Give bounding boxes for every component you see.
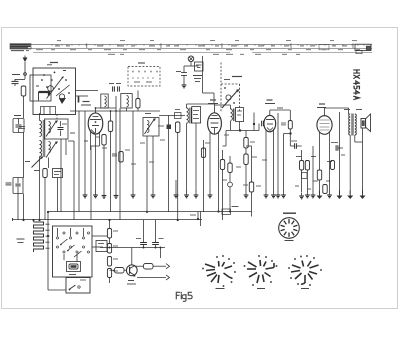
box R15 (302, 173, 308, 179)
speaker wire (362, 128, 364, 142)
valve connection diagram 1 (205, 264, 215, 268)
switch box wires right (92, 235, 108, 237)
padder box (41, 107, 56, 115)
wire x91 (90, 146, 92, 220)
speaker (361, 119, 366, 129)
antenna coupling circle (24, 73, 27, 76)
electrolytic C30 (136, 238, 141, 240)
B3 pin wires (209, 133, 211, 193)
junction dots (239, 129, 241, 131)
label B3 EF41 (210, 99, 216, 101)
resistor R21 (107, 244, 111, 254)
B1 pin wires (90, 131, 92, 150)
coil box L2 (101, 94, 108, 108)
volume pot R12 (249, 182, 253, 192)
coupling cap B4 (261, 121, 263, 127)
trimmer T6 (32, 158, 42, 168)
output lines with arrows (153, 265, 166, 267)
resistor R23 (107, 269, 111, 278)
wire x278 (277, 113, 279, 192)
valve connection diagram 2 (248, 262, 257, 267)
wires IFT1 down (39, 117, 41, 121)
IFT1 primary winding (40, 121, 42, 137)
label B1-B5 (283, 212, 296, 214)
OT wires (349, 135, 351, 194)
IFT2 box (143, 118, 159, 137)
resistor R6 (119, 152, 123, 163)
wire RF box to B1 (76, 90, 99, 92)
B3 anode wire (218, 150, 220, 212)
valve connection diagram 3 (292, 265, 301, 268)
gang dashed link (56, 115, 58, 121)
wire B4 grid (254, 130, 259, 132)
cathode resistor R16 (317, 170, 321, 180)
resistor chain R20 (107, 229, 111, 239)
battery box (195, 62, 204, 71)
resistor R22 (107, 257, 111, 267)
capacitor C1 (12, 74, 20, 76)
AVC bus wire (13, 219, 203, 221)
oscillator unit dashed box (128, 67, 160, 87)
switch arms (60, 239, 68, 245)
output stage labels (296, 156, 301, 158)
osc coil box L3 (121, 94, 132, 109)
label T-B (344, 109, 350, 111)
resistor R9 (244, 138, 248, 149)
resistor R4 (102, 135, 106, 146)
resistor R18 (331, 161, 335, 170)
extra specks zone IF (125, 149, 130, 151)
figure caption (176, 292, 192, 301)
ground row (175, 192, 177, 196)
wire x85 (84, 111, 86, 192)
wire x339 (339, 112, 341, 160)
IFT1 core (42, 120, 44, 157)
B4 top wire (270, 109, 290, 111)
resistor R10 (244, 154, 248, 165)
output transformer core (351, 114, 353, 136)
tube B5 (317, 116, 332, 135)
resistor R8 (176, 122, 180, 133)
IFT3 winding (187, 108, 189, 123)
resistor R13 (288, 121, 292, 130)
resistor R14 pair (300, 161, 304, 171)
wire x74 (73, 141, 75, 220)
B5 top wire to OT (325, 107, 349, 109)
grid wire (312, 146, 314, 192)
ground lamp (183, 82, 185, 86)
coil L1 thick lead (39, 92, 50, 96)
output resistor R25 (144, 264, 154, 270)
label B1 ECH42 (83, 101, 90, 103)
detector cap circle (228, 182, 233, 187)
tube B1 (88, 113, 103, 134)
collector wire (131, 248, 133, 265)
resistor R11 (228, 163, 232, 173)
dial bar tiny legends (55, 45, 60, 47)
electrolytic C31 (159, 238, 164, 240)
IFT1 capacitor (58, 127, 64, 129)
output transformer primary (349, 114, 351, 135)
tube B4 (264, 115, 276, 131)
wire x79 (78, 111, 80, 212)
bus component (222, 209, 231, 215)
socket B1-B5 pinout (279, 218, 300, 239)
emitter line y247 (100, 247, 165, 249)
wire x226 (225, 131, 227, 147)
tube B3 (208, 113, 222, 134)
switch contacts (56, 237, 58, 239)
ground B1 cathode (95, 192, 97, 196)
IFT2 pin wires (146, 136, 148, 212)
electrolytic C3 box (13, 178, 23, 194)
output transformer secondary (355, 114, 357, 135)
label B5 (319, 103, 325, 105)
push-button unit box (53, 226, 93, 277)
wires down x116-138 (115, 96, 117, 192)
resistor R17 (323, 185, 327, 194)
extra specks zone B3-B4 (205, 142, 210, 144)
capacitor C64 (181, 72, 187, 74)
resistor R5 (136, 99, 140, 109)
IFT4 box (236, 108, 244, 122)
resistor R7 (43, 169, 47, 178)
resistor R3 (108, 121, 112, 132)
tone cap C23 (335, 145, 337, 151)
main vertical wire x48 (47, 212, 49, 290)
junction blob (167, 125, 172, 130)
gang C5 rotor (222, 91, 238, 109)
IFT1 lower secondary (49, 142, 51, 153)
B1 top wire (96, 107, 117, 109)
tuning gang C4 rotor (47, 78, 63, 99)
capacitor C17 box (175, 113, 182, 119)
dial scale bar (10, 43, 372, 45)
resistor R1 (21, 86, 26, 96)
capacitor box C19 (53, 169, 63, 178)
wave switch comb (34, 222, 44, 252)
dial drive line (202, 56, 204, 93)
tuning gang C5 dashed (220, 63, 222, 113)
wires IFT4 (230, 105, 232, 109)
wire top to B3 (187, 103, 215, 105)
lower switch box (66, 278, 90, 294)
IFT4 winding (231, 109, 233, 120)
wire y115 (159, 115, 185, 117)
label C20 (17, 238, 25, 240)
dial bar ticks (51, 44, 53, 46)
resistor unit inner box (67, 262, 81, 272)
base resistor R24 (115, 268, 125, 274)
wire input to bus (23, 194, 25, 221)
coupling cap C22 (294, 143, 296, 149)
capacitor C2 box (13, 119, 24, 133)
vert link x160 (160, 248, 162, 259)
chain wire (109, 220, 111, 229)
extra wire x203 (203, 148, 205, 212)
B5 pins (319, 132, 321, 171)
long top wire y111 (70, 110, 160, 112)
label B4 EBC41 (267, 99, 273, 101)
grid leak cluster (281, 122, 286, 124)
grid cluster caps (112, 86, 114, 91)
transistor label (128, 280, 134, 282)
pin marker (78, 97, 80, 103)
antenna (23, 58, 28, 63)
pilot lamp (188, 56, 194, 62)
transistor B8 (126, 265, 137, 276)
B4 pins (265, 131, 267, 193)
RF tuning unit box SR1 (33, 68, 76, 115)
dial bar left block (10, 44, 31, 46)
misc dots (109, 247, 111, 249)
IFT1 secondary box (45, 119, 69, 139)
wires IFT3 (186, 104, 188, 108)
B3 screen resistor (220, 160, 224, 170)
trimmer marks (54, 72, 56, 74)
dial bar right end box (355, 44, 371, 50)
dial bar mid box (319, 45, 329, 50)
switch inner wires (57, 228, 59, 237)
IFT3 box (192, 107, 201, 124)
extra hline y146 B3 (246, 145, 252, 147)
bus end stub (251, 206, 253, 217)
wire y130 (226, 130, 254, 132)
small box below (96, 241, 107, 252)
label HX 454 A (354, 70, 360, 100)
bus drop wire (200, 212, 202, 227)
label 6304 (232, 76, 242, 78)
B+ bus wire (48, 211, 252, 213)
